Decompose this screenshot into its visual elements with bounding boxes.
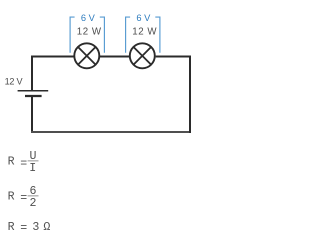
fraction bar of 6/2 bbox=[28, 195, 39, 197]
lamp L1 (circle with X cross) bbox=[74, 43, 99, 68]
wire: top side, lamp L2 to top-right corner bbox=[156, 56, 191, 58]
svg-text:=: = bbox=[20, 192, 27, 205]
svg-text:R: R bbox=[8, 190, 15, 203]
svg-text:=: = bbox=[20, 157, 27, 170]
svg-text:I: I bbox=[29, 162, 36, 175]
svg-text:Ω: Ω bbox=[43, 221, 50, 234]
battery B1: short negative plate bbox=[25, 95, 42, 97]
svg-text:12 W: 12 W bbox=[77, 26, 102, 37]
svg-text:6 V: 6 V bbox=[81, 13, 96, 23]
battery B1: long positive plate bbox=[18, 90, 49, 92]
wire: left side lower, battery negative plate to bottom-left corner bbox=[31, 96, 33, 133]
svg-text:12 W: 12 W bbox=[132, 26, 157, 37]
equation 1: R = U/I bbox=[8, 150, 37, 175]
svg-text:3: 3 bbox=[32, 221, 39, 234]
svg-text:R: R bbox=[8, 221, 15, 234]
svg-text:=: = bbox=[20, 222, 27, 235]
measurement bracket over L2 (blue) bbox=[126, 17, 160, 53]
svg-text:2: 2 bbox=[30, 197, 37, 210]
svg-text:12 V: 12 V bbox=[5, 77, 24, 87]
svg-text:R: R bbox=[8, 155, 15, 168]
fraction bar of U/I bbox=[28, 160, 39, 162]
wire: top side, left corner to lamp L1 bbox=[31, 56, 74, 58]
equation 2: R = 6/2 bbox=[8, 185, 37, 210]
svg-text:6 V: 6 V bbox=[136, 13, 151, 23]
lamp L2 (circle with X cross) bbox=[130, 43, 155, 68]
wire: left side upper, top-left corner to battery positive plate bbox=[31, 56, 33, 91]
measurement bracket over L1 (blue) bbox=[70, 17, 104, 53]
wire: top side, between lamp L1 and lamp L2 bbox=[100, 56, 129, 58]
equation 3: R = 3 Ohm bbox=[8, 221, 51, 235]
wire: right side bbox=[189, 56, 191, 134]
wire: bottom side bbox=[31, 131, 191, 133]
